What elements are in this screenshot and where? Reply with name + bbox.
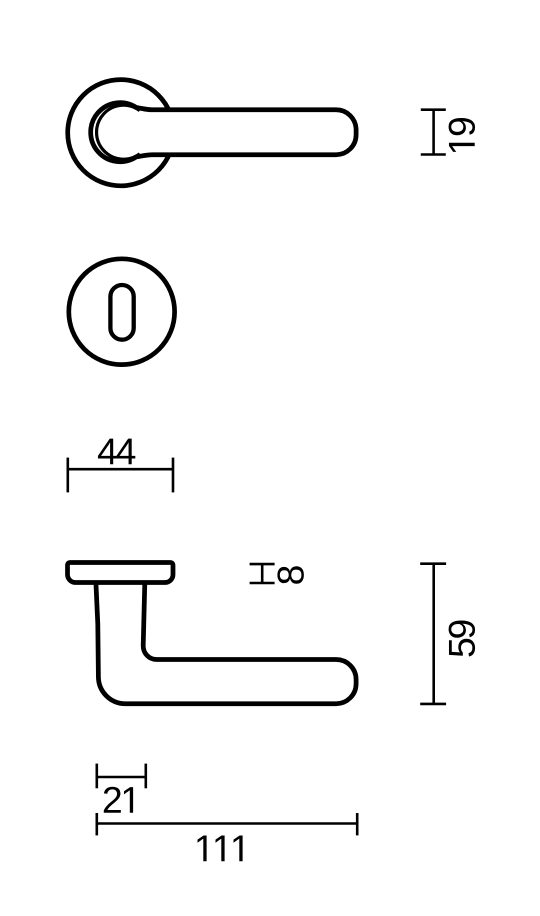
thin inner arc on lever neck (97, 105, 140, 159)
dimension 21 (neck offset) (97, 764, 146, 789)
label 21 (104, 787, 133, 813)
label 19 (449, 118, 475, 152)
lever handle outline (front view) (91, 103, 356, 162)
dimension 44 (rosette diameter) (68, 458, 173, 493)
escutcheon (keyhole rosette) (69, 259, 175, 365)
label 8 (277, 566, 303, 584)
dimension 8 (rose thickness) (250, 564, 275, 583)
dimension 111 (handle length) (97, 813, 357, 835)
rose side profile (side view) (68, 563, 174, 583)
keyhole slot (110, 285, 133, 340)
label 44 (98, 439, 135, 465)
label 111 (198, 835, 243, 861)
rose (round rosette, front view) (68, 80, 174, 186)
lever handle outline (side view) (96, 583, 356, 704)
dimension 19 (lever bar thickness) (421, 110, 446, 155)
dimension 59 (handle height) (420, 564, 446, 704)
label 59 (449, 620, 475, 656)
